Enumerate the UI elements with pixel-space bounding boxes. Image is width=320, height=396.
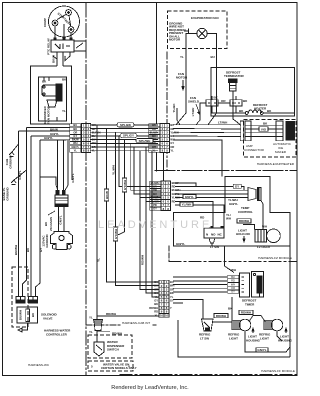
machine compartment box: [31, 66, 72, 124]
power cord P1: [40, 140, 68, 232]
evap fan leads: [176, 49, 217, 125]
svg-text:GY/WH: GY/WH: [123, 180, 127, 190]
defrost timer M2: [228, 275, 239, 294]
wire label GN/YL: [183, 195, 196, 199]
splice SPL/GY: [120, 133, 137, 137]
svg-text:GROUND: GROUND: [9, 155, 13, 169]
overload protector OL: [74, 41, 86, 51]
base plate ground: [11, 170, 27, 185]
svg-text:BK: BK: [267, 109, 272, 113]
svg-text:Y: Y: [170, 306, 172, 310]
svg-text:BK: BK: [243, 99, 248, 103]
automatic ice maker dashed box: [244, 120, 297, 158]
condenser fan motor box: [39, 77, 67, 121]
water dispenser switch dashed box: [88, 335, 132, 358]
svg-text:RD/WH: RD/WH: [239, 219, 249, 223]
svg-text:BK: BK: [73, 127, 77, 131]
svg-text:BK/W: BK/W: [52, 55, 56, 63]
svg-text:N: N: [206, 233, 208, 237]
svg-text:LT/BU: LT/BU: [191, 108, 195, 117]
svg-text:LT/WH: LT/WH: [218, 120, 227, 124]
svg-text:COMP: COMP: [43, 18, 47, 27]
svg-text:BU: BU: [73, 123, 77, 127]
left column wires L1/L2: [19, 133, 41, 296]
svg-text:OR: OR: [170, 145, 174, 149]
splice SPL/WH: [136, 138, 153, 142]
svg-text:GN/YL: GN/YL: [229, 202, 238, 206]
wire label VIO: [259, 127, 268, 131]
gn/yl ground run ff module: [245, 331, 290, 352]
svg-text:HOUSING: HOUSING: [246, 338, 261, 342]
dashed box water controller: [12, 267, 28, 327]
connector J4 ff module pin grid: [149, 280, 174, 317]
refrig lt switch S4: [202, 319, 233, 331]
svg-text:MOTOR: MOTOR: [169, 38, 181, 42]
fz module box with temp-control notch: [174, 177, 291, 246]
svg-text:TERMINATOR: TERMINATOR: [224, 74, 245, 78]
temp control S2: [244, 188, 261, 201]
svg-text:GN/YL: GN/YL: [185, 195, 194, 199]
svg-text:GY: GY: [170, 141, 174, 145]
wire label RD/WH bulb-bulb: [239, 310, 253, 314]
compressor C: [49, 6, 80, 40]
svg-text:CONNECTOR: CONNECTOR: [244, 148, 265, 152]
svg-text:GROUND: GROUND: [6, 187, 10, 201]
svg-text:GY: GY: [73, 134, 77, 138]
svg-text:YL: YL: [89, 316, 93, 320]
svg-text:HARNESS-FF MODULE: HARNESS-FF MODULE: [261, 369, 295, 373]
svg-text:MOTOR: MOTOR: [176, 76, 188, 80]
svg-text:GY: GY: [39, 248, 43, 252]
wire label GN/YL ff: [256, 348, 268, 352]
svg-text:BK: BK: [31, 312, 35, 317]
inline connector cab-int: [94, 320, 111, 343]
wire rd/wh to bulb: [243, 225, 255, 230]
svg-text:SPL/GY: SPL/GY: [123, 134, 134, 138]
refrig light bulb DS3: [264, 319, 283, 331]
light switch S3: [204, 226, 224, 246]
svg-text:RD: RD: [172, 185, 176, 189]
svg-text:YL/WH: YL/WH: [112, 165, 116, 175]
PTC relay U1: [51, 38, 86, 52]
svg-text:HOLD-NO: HOLD-NO: [236, 232, 251, 236]
svg-text:NC: NC: [218, 233, 223, 237]
svg-text:RD/WH: RD/WH: [149, 306, 158, 310]
svg-text:PTC RELAY: PTC RELAY: [47, 38, 51, 55]
svg-text:BK: BK: [154, 302, 158, 306]
svg-text:LIGHT: LIGHT: [260, 336, 269, 340]
harness separator vertical dash x=167: [166, 52, 168, 170]
connector J1 cab/machine pin grid: [70, 123, 101, 152]
svg-text:BK/W: BK/W: [105, 191, 109, 199]
svg-text:WH: WH: [226, 217, 231, 221]
harness separator vertical dash-dot x=86: [85, 3, 87, 375]
svg-text:YL: YL: [155, 313, 159, 317]
svg-text:HARNESS-FZ MODULE: HARNESS-FZ MODULE: [258, 256, 292, 260]
svg-text:1: 1: [210, 101, 212, 105]
svg-text:OR: OR: [231, 286, 235, 290]
svg-text:SWITCH: SWITCH: [107, 348, 119, 352]
svg-text:GY: GY: [231, 290, 235, 294]
svg-text:GY: GY: [235, 184, 239, 188]
evap fan motor M1: [184, 28, 217, 48]
fz upper feed wires: [164, 140, 223, 181]
wires from terminals down to relay box: [54, 26, 56, 40]
svg-text:WH: WH: [170, 138, 174, 142]
svg-text:EVAPORATOR FAN: EVAPORATOR FAN: [191, 16, 219, 20]
harness-evap/heater boundary horizontal y=170.5: [155, 170, 297, 172]
harness-ff module boundary dashes above bottom border: [120, 374, 297, 376]
svg-text:OR: OR: [63, 55, 67, 60]
svg-text:YL/BK: YL/BK: [172, 103, 176, 113]
svg-text:BU: BU: [231, 275, 235, 279]
connector J2 evap harness pin grid: [149, 123, 179, 152]
wires below evap box to ice maker: [173, 116, 241, 137]
left pin blocks: [16, 297, 38, 304]
svg-text:RD/WH: RD/WH: [216, 314, 226, 318]
wire label RD/WH fz: [237, 219, 251, 223]
svg-text:OR: OR: [221, 99, 226, 103]
svg-text:VIO: VIO: [261, 127, 267, 131]
svg-text:YL: YL: [97, 258, 101, 262]
svg-text:CERTAIN MODELS ONLY: CERTAIN MODELS ONLY: [101, 366, 137, 370]
wire rd/wh to connD row10: [97, 315, 159, 317]
svg-text:GN/YL: GN/YL: [176, 242, 185, 246]
svg-text:HARNESS-CAB INT: HARNESS-CAB INT: [122, 321, 150, 325]
terminal start: [66, 10, 72, 16]
svg-text:SPL/WH: SPL/WH: [139, 139, 151, 143]
wire from start terminal: [57, 15, 66, 20]
connector J3 fz module pin grid: [150, 181, 181, 211]
wire label GY/WH lower: [113, 227, 117, 241]
svg-text:WH: WH: [73, 141, 77, 145]
svg-text:YL: YL: [74, 148, 78, 152]
svg-text:LT SW: LT SW: [200, 336, 209, 340]
svg-text:BK: BK: [44, 221, 48, 226]
svg-text:VALVE: VALVE: [43, 316, 53, 320]
svg-text:GN/YL: GN/YL: [71, 145, 79, 149]
svg-text:SHIELD: SHIELD: [188, 100, 200, 104]
svg-text:5: 5: [91, 365, 93, 369]
svg-text:WH: WH: [231, 282, 235, 286]
svg-text:CONTROL: CONTROL: [238, 210, 253, 214]
wire label GY: [233, 184, 241, 188]
svg-text:YL: YL: [180, 55, 184, 59]
svg-text:BU/WH: BU/WH: [19, 310, 23, 320]
svg-text:FZ LIGHT: FZ LIGHT: [257, 245, 271, 249]
svg-text:Rendered by LeadVenture, Inc.: Rendered by LeadVenture, Inc.: [111, 385, 189, 391]
inline connectors 1-3: [177, 96, 242, 125]
refrig light bulb DS2: [232, 316, 265, 331]
svg-text:LIGHT: LIGHT: [229, 336, 238, 340]
svg-text:WH: WH: [231, 268, 236, 272]
svg-text:HARNESS-EVAP/HEATER: HARNESS-EVAP/HEATER: [257, 162, 295, 166]
vertical drop wires from bus: [96, 125, 98, 320]
svg-text:GY: GY: [154, 299, 158, 303]
svg-text:LT SW: LT SW: [210, 245, 219, 249]
amp connector bars: [240, 121, 294, 141]
svg-text:BU: BU: [211, 55, 215, 59]
svg-text:WH: WH: [262, 225, 267, 229]
fz light bulb DS1: [255, 229, 280, 243]
wires out of machine compartment to connector A: [19, 124, 81, 180]
svg-text:PD: PD: [153, 203, 157, 207]
terminal common: [52, 20, 58, 26]
svg-text:RD: RD: [172, 199, 176, 203]
svg-text:LEADVENTURE: LEADVENTURE: [98, 219, 212, 231]
svg-text:20/14AOS: 20/14AOS: [49, 217, 53, 231]
svg-text:BU/WH: BU/WH: [14, 245, 18, 255]
svg-text:RD: RD: [154, 310, 158, 314]
svg-text:YL: YL: [170, 148, 174, 152]
evap compartment box: [211, 68, 295, 117]
harness-cab int boundary y=326: [86, 324, 120, 326]
ff module box: [178, 320, 290, 357]
plug: [51, 232, 73, 250]
svg-text:FAN MOTOR: FAN MOTOR: [47, 105, 51, 124]
svg-text:TIMER: TIMER: [245, 302, 255, 306]
cab ground: [9, 144, 19, 157]
svg-text:GN/YL: GN/YL: [59, 215, 63, 224]
dispenser switch S5: [94, 342, 104, 356]
svg-text:YL: YL: [89, 330, 93, 334]
svg-text:BK/W: BK/W: [50, 128, 58, 132]
wires relay to compartment with labels: [53, 52, 70, 66]
fz feed wires right of connC: [175, 183, 263, 229]
svg-text:NO: NO: [211, 233, 216, 237]
splice SPL/BK: [117, 123, 134, 127]
svg-text:RD/WH: RD/WH: [241, 311, 251, 315]
svg-text:3: 3: [234, 101, 236, 105]
svg-text:GN/YL: GN/YL: [257, 348, 266, 352]
solenoid valve K1: [17, 307, 38, 332]
wire label YL/WH: [180, 202, 193, 206]
wire label RD/WH switch-bulb: [214, 314, 228, 318]
svg-text:YL: YL: [62, 109, 66, 113]
svg-text:CONTROLLER: CONTROLLER: [46, 332, 68, 336]
svg-text:GY: GY: [153, 207, 157, 211]
svg-text:RD/WH: RD/WH: [106, 312, 116, 316]
svg-text:RD: RD: [231, 279, 235, 283]
svg-text:GN/YL: GN/YL: [71, 173, 75, 182]
svg-text:GN/YL: GN/YL: [44, 136, 53, 140]
svg-text:OR: OR: [73, 130, 77, 134]
svg-text:BK: BK: [263, 121, 268, 125]
terminal run: [68, 27, 74, 33]
svg-text:YL/WH: YL/WH: [182, 202, 192, 206]
harness-fz boundary: [168, 246, 170, 262]
svg-text:MAKER: MAKER: [275, 150, 287, 154]
svg-text:YL: YL: [170, 295, 174, 299]
svg-text:BK/W: BK/W: [72, 138, 79, 142]
svg-text:BK: BK: [239, 109, 244, 113]
svg-text:GROUND: GROUND: [45, 234, 49, 248]
wire label GY/WH upper: [122, 178, 126, 192]
svg-text:RD/WH: RD/WH: [141, 255, 145, 265]
svg-text:HARNESS-WC: HARNESS-WC: [28, 363, 50, 367]
harness separator vertical solid x=156.5: [156, 3, 158, 171]
bus wires connA to connB: [90, 125, 158, 151]
svg-text:BK: BK: [214, 96, 219, 100]
svg-text:BK: BK: [42, 80, 47, 84]
evaporator fan dashed box: [168, 11, 228, 49]
wire label BK/W: [104, 189, 108, 201]
svg-text:SPL/BK: SPL/BK: [120, 123, 132, 127]
water valve note dashed box: [88, 361, 133, 371]
fz lower connector wires / defrost timer feeds: [173, 246, 290, 357]
